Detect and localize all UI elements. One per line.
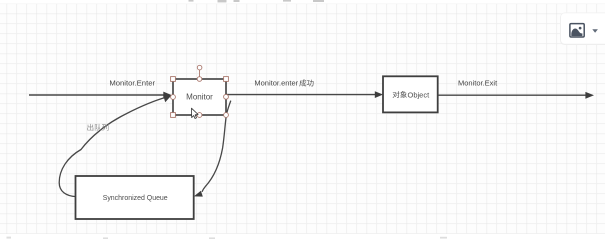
image tool button bbox=[560, 13, 605, 45]
selection rotation handle Monitor bbox=[197, 65, 202, 76]
selection connection points Monitor bbox=[171, 77, 229, 118]
bottom edge remnants bbox=[7, 237, 448, 239]
label 出队列 bbox=[87, 124, 108, 131]
wire dequeue curve SynchronizedQueue to Monitor bbox=[59, 95, 171, 196]
node 对象Object bbox=[383, 76, 438, 112]
wire enqueue curve Monitor to SynchronizedQueue bbox=[194, 101, 231, 197]
top toolbar remnants bbox=[189, 0, 325, 2]
node Monitor bbox=[173, 79, 226, 115]
mouse cursor bbox=[192, 108, 199, 118]
selection handles Monitor corners bbox=[171, 77, 229, 118]
svg-text:Synchronized Queue: Synchronized Queue bbox=[103, 193, 168, 202]
svg-text:Monitor.Enter: Monitor.Enter bbox=[109, 79, 155, 88]
svg-text:Monitor: Monitor bbox=[186, 93, 213, 102]
svg-text:Object: Object bbox=[408, 90, 431, 99]
wire Monitor.enter成功 bbox=[226, 91, 383, 98]
svg-text:Monitor.Exit: Monitor.Exit bbox=[458, 78, 498, 87]
wire Monitor.Enter bbox=[29, 92, 172, 99]
svg-text:Monitor.enter: Monitor.enter bbox=[254, 79, 298, 88]
wire Monitor.Exit bbox=[438, 92, 594, 99]
label Monitor.enter成功 bbox=[254, 79, 313, 88]
node SynchronizedQueue bbox=[76, 176, 194, 219]
